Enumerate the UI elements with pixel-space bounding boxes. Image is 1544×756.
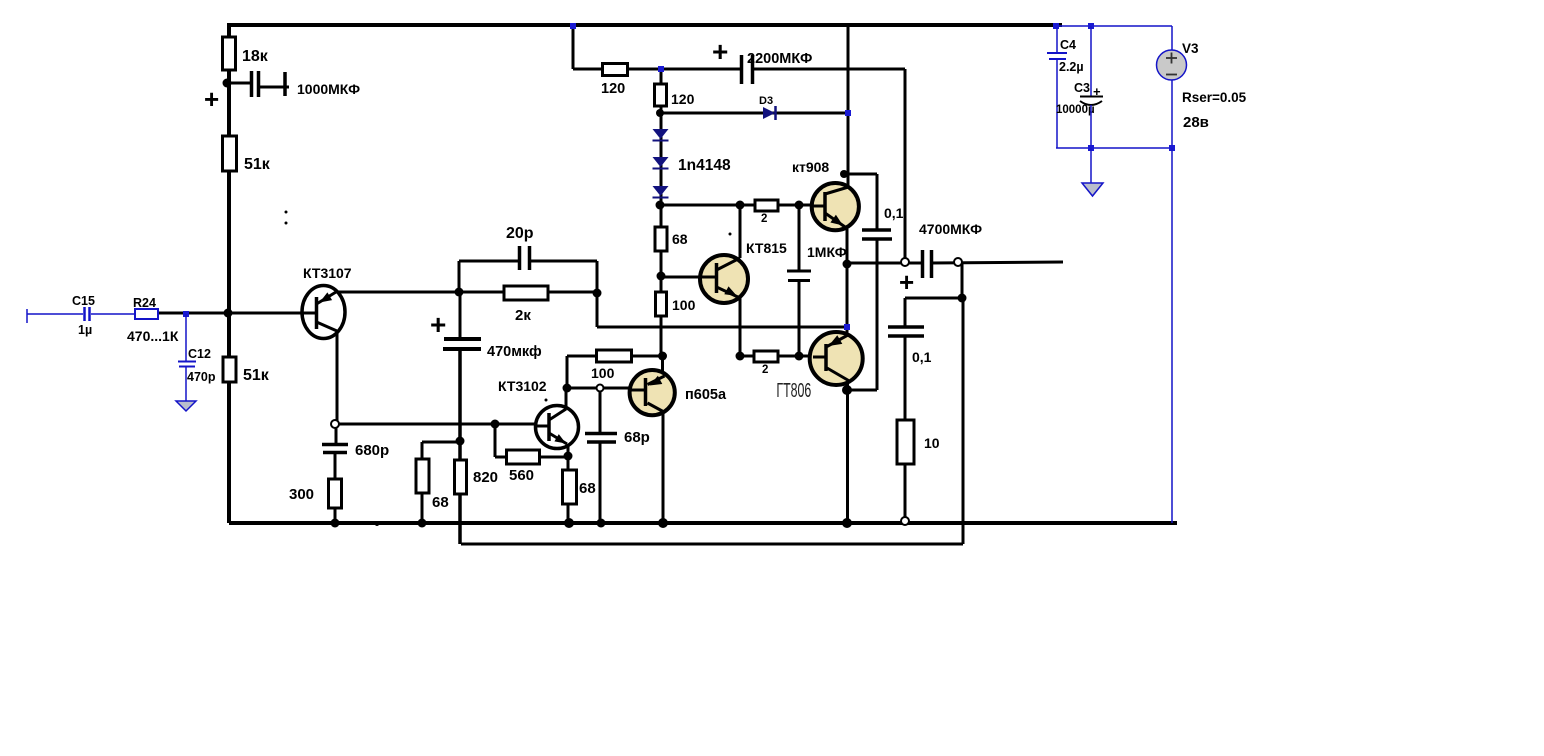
resistor 100 mid [597,350,632,362]
label 2 upper [761,213,767,225]
label 2200 plus [712,36,728,67]
wire zobel mid lead [904,335,907,420]
wire 68L upper lead [421,442,424,460]
label p605a [685,387,727,403]
wire 1000MKF lead left [227,82,250,85]
resistor 2 upper [755,200,778,211]
label 470mkf plus [430,309,446,340]
ground input [176,401,196,411]
label 1000MKF plus [204,84,219,114]
capacitor 0.1b [888,327,924,336]
transistor Q2 KT3102 [536,406,579,449]
label 0.1a [884,205,904,221]
label C3 plus [1093,84,1101,99]
node KT815 base junction [657,272,666,281]
svg-text:300: 300 [289,486,314,503]
svg-text:1000МКФ: 1000МКФ [297,81,360,97]
wire 680p upper lead [335,427,338,445]
label 68 bias [672,231,688,247]
svg-text:V3: V3 [1182,41,1199,56]
wire KT3102 collector up [566,356,569,388]
wire 20p right leg [596,261,599,293]
node kt908 emitter junction [843,260,852,269]
resistor 68 bias [655,227,667,251]
label C4 value [1059,60,1084,74]
wire C4 lower lead [1056,60,1058,148]
svg-text:680p: 680p [355,442,389,459]
resistor 300 [329,479,342,508]
node 68p junction [597,385,604,392]
diode D2 1n4148 [653,157,669,169]
capacitor 680p [322,445,348,453]
wire 100mid left lead [567,355,597,358]
resistor 51k lower [223,357,236,382]
label 4700 plus [899,267,914,297]
svg-text:C12: C12 [188,347,211,361]
label 300 [289,486,314,503]
transistor Q1 KT3107 [302,286,345,339]
wire p605a emitter up [661,356,664,377]
wire C4 upper lead [1056,26,1058,52]
svg-text:C15: C15 [72,294,95,308]
label 820 [473,469,498,486]
wire KT3102 collector leg [565,388,568,409]
resistor R24 [135,309,158,319]
wire 560 right lead [539,456,568,459]
wire ground stem [1090,148,1092,183]
svg-text:+: + [712,36,728,67]
resistor 68R [563,470,577,504]
label 68p [624,429,650,446]
capacitor 20p [520,246,530,270]
wire 68L lower lead [421,492,424,523]
svg-text:+: + [204,84,219,114]
capacitor C3 [1080,97,1103,106]
capacitor 470mkf [443,339,481,349]
label 560 [509,467,534,484]
transistor Q3 p605a [630,370,675,415]
wire zobel lower lead [904,463,907,519]
wire 20p top left [459,260,519,263]
svg-text:КТ3107: КТ3107 [303,265,352,281]
node KT3102 collector junction [563,384,572,393]
svg-text:C3: C3 [1074,81,1090,95]
wire feedback right leg [962,298,965,544]
label 1n4148 [678,157,731,174]
svg-text:68: 68 [579,480,596,497]
label V3 value [1183,114,1209,131]
wire 68R lower lead [567,504,570,523]
svg-text:1µ: 1µ [78,323,92,337]
capacitor 1MKF [787,271,811,281]
resistor 51k upper [223,136,237,171]
wire left supply column [227,23,231,523]
label C12 [188,347,211,361]
node zobel bottom [901,517,909,525]
wire output row right [931,262,1063,263]
capacitor 2200MKF [742,55,753,84]
wire 120h left lead [573,68,603,71]
label KT3102 [498,378,547,394]
voltage source V3 [1157,50,1187,80]
wire C3 lower lead [1090,105,1092,148]
node output left [901,258,909,266]
wire kt908 emitter column [846,229,849,336]
node rail 300 [331,519,340,528]
node kt908 collector tap junction [840,170,848,178]
svg-text:68p: 68p [624,429,650,446]
label 51k upper [244,156,271,173]
svg-text:51к: 51к [244,156,271,173]
wire 560 left leg [494,424,497,457]
node blue top mid [1088,23,1094,29]
label R24 value [127,328,179,344]
label 1MKF [807,244,847,260]
node KT3102 emitter junction [564,452,573,461]
wire KT3107 emitter drop [336,330,339,422]
wire C3 upper lead [1090,26,1092,96]
svg-text:470...1К: 470...1К [127,328,179,344]
capacitor C15 [85,307,90,321]
wire blue top [1056,25,1172,27]
diode D1 1n4148 [653,129,669,141]
node output right [954,258,962,266]
svg-text:0,1: 0,1 [912,349,932,365]
label V3 [1182,41,1199,56]
label kt908 [792,159,829,175]
diode D4 1n4148 [653,186,669,198]
label 2200MKF [747,51,812,67]
wire 0.1a to emitter node [848,389,877,392]
label KT3107 [303,265,352,281]
wire blue bottom [1056,147,1172,149]
wire base feed KT3107 [229,312,303,315]
node p605a emitter junction [658,352,667,361]
svg-text:C4: C4 [1060,38,1076,52]
label 2k [515,307,531,324]
node input terminal tick [26,309,28,323]
wire 300 to rail [334,507,337,523]
wire KT815 base [661,276,701,279]
label 4700MKF [919,221,982,237]
wire KT815 collector leg [739,205,742,258]
node rail 68R [564,518,574,528]
node D3 right [845,110,851,116]
wire bottom ground rail [229,521,1177,525]
wire 680p to 300 [334,453,337,480]
label 120h [601,81,625,97]
wire p605a collector down [662,410,665,523]
node 68L junction [456,437,465,446]
node rail p605a [658,518,668,528]
wire V3 lower lead [1171,80,1173,148]
wire C12 upper lead [185,314,187,361]
resistor 820 [455,460,467,494]
svg-text:+: + [899,267,914,297]
label R24 [133,296,156,310]
svg-text:120: 120 [671,91,695,107]
wire GT806 collector down [846,380,849,523]
wire 2200 down to output [904,69,907,259]
wire input blue 2 [91,313,135,315]
label 68L [432,494,449,511]
wire mid horizontal to GT806 node [597,326,847,329]
wire KT3102 emitter leg [567,445,570,471]
resistor 2 lower [754,351,778,362]
svg-text:28в: 28в [1183,114,1209,131]
wire 68p upper lead [599,389,602,434]
node blue top left [1053,23,1059,29]
node 120 junction [658,66,664,72]
wire 68L tap [422,441,460,444]
svg-text:+: + [1093,84,1101,99]
node top tap [570,23,576,29]
label 0.1b [912,349,932,365]
svg-text:20p: 20p [506,225,534,242]
svg-text:ГТ806: ГТ806 [776,379,811,402]
svg-text:КТ3102: КТ3102 [498,378,547,394]
wire input black segment [158,312,229,315]
wire 68p lower lead [599,442,602,523]
node base junction [224,309,233,318]
label 51k lower [243,367,270,384]
label 680p [355,442,389,459]
resistor 2k [504,286,548,300]
node 2l right junction [795,352,804,361]
label C3 [1074,81,1090,95]
svg-text:100: 100 [672,297,696,313]
wire KT815 emitter leg [739,297,742,356]
node zobel junction [958,294,967,303]
node D3 junction [656,109,664,117]
transistor Q5 KT815 [700,255,748,303]
label C15 [72,294,95,308]
diode D3 [763,106,776,120]
node GT806 emitter node [844,324,850,330]
wire 2k right lead [548,291,597,294]
node emitter junction [331,420,339,428]
svg-text:51к: 51к [243,367,270,384]
svg-text:R24: R24 [133,296,156,310]
label GT806 [776,379,811,402]
resistor 560 [507,450,540,464]
wire mid column upper (20p left leg) [458,261,461,293]
label 10 [924,435,940,451]
node blue bottom right [1169,145,1175,151]
node input junction [183,311,189,317]
label D3 [759,95,773,107]
svg-text:470мкф: 470мкф [487,344,542,360]
wire V3 upper lead [1171,26,1173,51]
label KT815 [746,240,787,256]
svg-text:0,1: 0,1 [884,205,904,221]
label V3 Rser [1182,90,1247,105]
wire 1000MKF lead right [259,86,289,89]
node 2u right junction [795,201,804,210]
wire 0.1a upper lead [876,174,879,230]
capacitor 0.1a [862,230,892,239]
capacitor C4 [1047,53,1067,59]
label 18k [242,48,269,65]
node stray marks [253,211,732,527]
wire bias row lower [740,355,813,358]
node rail 68L [418,519,427,528]
label 1000MKF [297,81,360,97]
svg-text:470p: 470p [187,370,216,384]
capacitor C12 [178,362,196,367]
wire 2k node down [596,293,599,327]
wire diode column [660,69,663,356]
svg-text:2к: 2к [515,307,531,324]
node 2u left junction [736,201,745,210]
wire output down leg [961,263,964,298]
wire 20p top right [530,260,597,263]
wire 120h right lead [627,68,661,71]
transistor Q4 kt908 [812,183,859,230]
wire 0.1a lower lead [876,239,879,390]
svg-text:+: + [430,309,446,340]
svg-text:120: 120 [601,81,625,97]
capacitor 4700MKF [923,250,932,278]
wire 2200MKF lead right [753,68,905,71]
wire 2200MKF lead left [661,68,741,71]
svg-text:КТ815: КТ815 [746,240,787,256]
wire base p605a [567,387,632,390]
node blue bottom mid [1088,145,1094,151]
wire 1MKF lower lead [798,280,801,356]
wire top tap down [572,25,575,69]
node GT806 collector junction [842,385,852,395]
svg-text:560: 560 [509,467,534,484]
label C3 value [1056,104,1095,116]
resistor 18k [223,37,236,70]
wire 2k left lead [459,291,505,294]
svg-text:2: 2 [762,364,768,376]
label 20p [506,225,534,242]
capacitor 68p [585,434,617,443]
label C15 value 1µ [78,323,92,337]
label 470mkf [487,344,542,360]
node 2k right junction [593,289,602,298]
svg-text:Rser=0.05: Rser=0.05 [1182,90,1247,105]
wire top supply rail [228,23,1062,27]
capacitor 1000MKF plates [252,71,286,97]
svg-text:2.2µ: 2.2µ [1059,60,1084,74]
resistor 68L [416,459,429,493]
label 100 mid [591,365,615,381]
transistor Q6 GT806 [810,332,863,385]
label 68R [579,480,596,497]
wire C12 lower lead [185,367,187,401]
resistor 120v [655,84,667,106]
wire 100mid right lead [631,355,663,358]
svg-text:4700МКФ: 4700МКФ [919,221,982,237]
wire output row left [847,262,922,265]
svg-text:кт908: кт908 [792,159,829,175]
wire input blue 1 [27,313,83,315]
wire KT3107 emitter node right [338,423,536,426]
svg-text:10: 10 [924,435,940,451]
node 560 junction [491,420,500,429]
resistor 10 [897,420,914,464]
node rail 68p [597,519,606,528]
svg-text:1n4148: 1n4148 [678,157,731,174]
label C12 value 470p [187,370,216,384]
wire mid column lower [458,349,462,544]
svg-text:1МКФ: 1МКФ [807,244,847,260]
resistor 120h [603,64,628,76]
svg-text:100: 100 [591,365,615,381]
wire zobel upper lead [904,298,907,327]
wire feedback bottom rail [461,543,963,546]
resistor 100 bias [656,292,667,316]
wire kt908 collector rail [847,25,850,188]
label C4 [1060,38,1076,52]
node diode bottom junction [656,201,665,210]
wire kt908 collector tap [844,173,877,176]
svg-text:D3: D3 [759,95,773,107]
wire bias row upper [660,204,813,207]
wire V3 return [1171,148,1173,523]
label 120v [671,91,695,107]
svg-text:820: 820 [473,469,498,486]
wire 560 left lead [495,456,507,459]
wire mid column to 470mkf [459,293,462,339]
svg-text:2: 2 [761,213,767,225]
wire D3 row [660,112,848,115]
node 1000MKF junction [223,79,232,88]
svg-text:68: 68 [432,494,449,511]
node KT3107 collector junction [455,288,464,297]
node 2l left junction [736,352,745,361]
svg-text:68: 68 [672,231,688,247]
label 2 lower [762,364,768,376]
wire 1MKF upper lead [798,205,801,271]
svg-text:п605а: п605а [685,387,727,403]
svg-text:10000µ: 10000µ [1056,104,1095,116]
node rail GT806 [842,518,852,528]
svg-text:2200МКФ: 2200МКФ [747,51,812,67]
label 100 bias [672,297,696,313]
ground power [1082,183,1103,196]
wire KT3107 collector [336,291,459,294]
wire zobel top [905,297,962,300]
svg-text:18к: 18к [242,48,269,65]
